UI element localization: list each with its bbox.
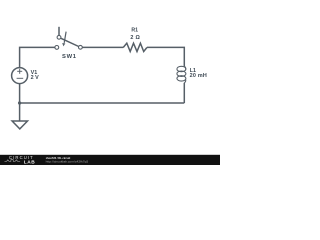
svg-text:CIRCUIT: CIRCUIT [9, 155, 34, 160]
banner background [0, 155, 220, 165]
switch SW1 actuation arrow [64, 32, 66, 43]
svg-text:LAB: LAB [24, 159, 35, 165]
switch SW1 right terminal circle [79, 45, 83, 49]
switch SW1 top terminal circle [57, 35, 61, 39]
wire switch to resistor [82, 46, 123, 48]
switch SW1 top terminal stub [58, 27, 60, 36]
svg-text:http://circuitlab.com/c42fk7q5: http://circuitlab.com/c42fk7q5 [46, 159, 89, 163]
switch SW1 left terminal circle [55, 46, 59, 50]
wire resistor to top-right corner down to inductor [147, 47, 184, 66]
voltage source V1 [12, 68, 28, 84]
resistor R1 zigzag [123, 43, 147, 51]
CircuitLab logo waveform [5, 160, 21, 162]
junction node at V1 / ground [18, 101, 21, 104]
bottom wire [20, 102, 185, 104]
wire V1 top to top-left corner to switch left terminal [20, 47, 55, 67]
inductor L1 coil [177, 66, 186, 83]
svg-text:SW1: SW1 [62, 54, 77, 60]
ground [12, 121, 27, 129]
wire inductor bottom to bottom-right corner [183, 83, 185, 103]
switch SW1 blade [61, 38, 79, 46]
wire V1 bottom to ground stub [19, 84, 21, 121]
svg-text:2 Ω: 2 Ω [130, 35, 140, 41]
svg-text:20 mH: 20 mH [190, 73, 207, 79]
svg-text:R1: R1 [131, 28, 138, 34]
svg-text:2 V: 2 V [31, 75, 39, 81]
